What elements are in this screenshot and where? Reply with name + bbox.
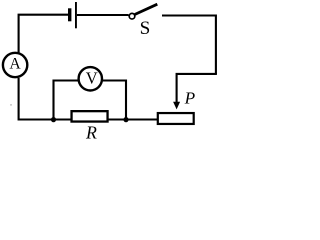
battery B1 (cell): long thin positive plate [75,2,77,28]
voltmeter U2 circle [79,67,102,90]
svg-text:R: R [85,123,97,143]
wire: top-left corner, ammeter top to battery negative [19,15,68,53]
switch S: open blade [135,4,158,14]
wire: switch right to top-right corner down right side [162,16,216,75]
resistor R body [72,111,108,121]
wire: voltmeter right branch down to junction [103,81,126,120]
junction node: left of R [51,117,56,122]
junction node: right of R [123,117,128,122]
stray scan speck [10,104,11,105]
battery B1 (cell): short thick negative plate [68,8,71,21]
svg-text:A: A [9,56,21,73]
wire: battery positive to switch [77,14,129,16]
wire: ammeter bottom, bottom-left corner to resistor left [19,78,71,120]
wire: right side to rheostat wiper arrow shaft [177,74,217,103]
svg-text:V: V [86,69,98,88]
wire: voltmeter left branch down to junction [54,81,79,120]
wire: resistor right to rheostat left [109,118,158,120]
svg-text:P: P [184,88,196,107]
rheostat wiper arrowhead [173,102,180,110]
rheostat P body [158,113,194,124]
ammeter U1 circle [3,53,27,77]
switch S: pivot circle [129,13,135,19]
svg-text:S: S [140,18,151,39]
